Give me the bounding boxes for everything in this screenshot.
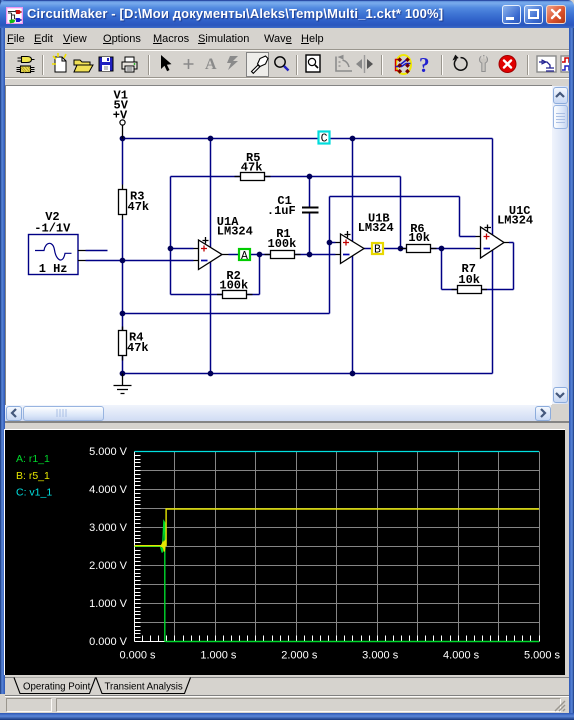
title bar xyxy=(0,0,574,28)
svg-text:B: r5_1: B: r5_1 xyxy=(16,470,50,482)
vertical scrollbar xyxy=(552,86,568,404)
resistor R2 xyxy=(217,269,253,298)
node junction R5/C1 xyxy=(307,174,313,180)
node junction A/R2/R1 xyxy=(257,252,263,258)
node junction U1A+ tap xyxy=(168,246,174,252)
node C marker xyxy=(319,132,330,146)
run icon xyxy=(453,55,467,71)
wire V2 plus stub xyxy=(86,250,108,252)
svg-text:B: B xyxy=(374,244,381,257)
svg-text:4.000 V: 4.000 V xyxy=(89,484,128,496)
wire U1A V- power drop xyxy=(210,262,212,374)
minimize button xyxy=(502,5,521,24)
svg-text:LM324: LM324 xyxy=(358,221,394,235)
resistor R7 xyxy=(452,262,488,294)
node junction rail/U1B power xyxy=(350,136,356,142)
print icon xyxy=(122,57,137,72)
node junction R6/R7 tap xyxy=(439,246,445,252)
wire bottom ground rail xyxy=(123,373,493,375)
svg-text:1.000 V: 1.000 V xyxy=(89,598,128,610)
node junction U1B out/R5 fb xyxy=(398,246,404,252)
svg-text:C: C xyxy=(321,133,328,146)
svg-text:3.000 s: 3.000 s xyxy=(362,650,399,662)
wire R6 node down to R7 xyxy=(442,249,458,290)
tab bar xyxy=(5,675,569,695)
app icon xyxy=(6,7,23,24)
svg-text:LM324: LM324 xyxy=(497,213,533,227)
svg-text:100k: 100k xyxy=(268,237,297,251)
wire to U1A noninverting input xyxy=(171,248,194,250)
page zoom icon xyxy=(306,55,320,72)
svg-text:10k: 10k xyxy=(408,231,430,245)
svg-text:5.000 V: 5.000 V xyxy=(89,446,128,458)
wire V1 to R3 xyxy=(122,139,124,185)
svg-text:1.000 s: 1.000 s xyxy=(200,650,237,662)
svg-text:-1/1V: -1/1V xyxy=(34,222,71,236)
wire U1B V- power drop xyxy=(352,256,354,374)
pause wrench icon xyxy=(480,55,488,72)
op-amp U1A xyxy=(194,215,253,270)
wire U1A V+ power drop xyxy=(210,139,212,248)
power terminal V1 +V xyxy=(113,88,129,138)
resistor R3 xyxy=(119,185,150,220)
node A marker xyxy=(239,249,250,263)
wire U1B noninverting column xyxy=(329,197,331,314)
svg-text:1 Hz: 1 Hz xyxy=(39,262,68,276)
lightning icon xyxy=(227,56,238,70)
svg-text:4.000 s: 4.000 s xyxy=(443,650,480,662)
menu bar xyxy=(5,28,569,50)
node junction ground rail left xyxy=(120,371,126,377)
plus icon xyxy=(184,59,194,69)
trace B yellow xyxy=(135,509,540,552)
node junction mid rail tap xyxy=(120,311,126,317)
svg-text:.1uF: .1uF xyxy=(267,204,296,218)
svg-text:Operating Point: Operating Point xyxy=(23,682,91,693)
wire R5/R2 left column xyxy=(170,177,172,295)
wire U1B+ to U1C+ link xyxy=(330,197,476,237)
svg-text:5.000 s: 5.000 s xyxy=(524,650,561,662)
wire C1 column xyxy=(309,177,311,255)
svg-text:47k: 47k xyxy=(127,341,149,355)
node junction U1B+ tap xyxy=(327,240,333,246)
window left border xyxy=(0,0,5,694)
mirror arrows icon xyxy=(356,55,373,73)
svg-text:2.000 V: 2.000 V xyxy=(89,560,128,572)
close button xyxy=(546,5,566,24)
svg-text:?: ? xyxy=(419,53,430,77)
wire top +V rail xyxy=(123,138,493,140)
svg-text:Transient Analysis: Transient Analysis xyxy=(105,682,183,693)
voltage source V2 xyxy=(29,210,86,276)
node junction ground rail mid xyxy=(208,371,214,377)
wire mid rail to U1B noninverting xyxy=(123,313,330,315)
trace A green xyxy=(135,522,540,642)
capacitor C1 xyxy=(267,194,319,218)
svg-text:3.000 V: 3.000 V xyxy=(89,522,128,534)
svg-text:C: v1_1: C: v1_1 xyxy=(16,487,52,499)
open folder icon xyxy=(74,60,93,72)
svg-text:A: A xyxy=(241,250,248,263)
save icon xyxy=(99,57,113,71)
parts browser icon xyxy=(17,57,35,73)
svg-text:+V: +V xyxy=(113,109,128,123)
wire U1C V+ power drop xyxy=(492,139,494,236)
node junction V1 rail xyxy=(120,136,126,142)
node junction rail/U1A power xyxy=(208,136,214,142)
wire R5 to U1B output feedback xyxy=(400,177,402,249)
wire U1A output to R1 to U1B inverting xyxy=(229,254,336,256)
node junction ground rail right xyxy=(350,371,356,377)
resistor R6 xyxy=(401,222,437,253)
wire R7 to U1C output xyxy=(482,243,514,290)
svg-text:0.000 V: 0.000 V xyxy=(89,636,128,648)
ground xyxy=(114,374,132,394)
digital options icon xyxy=(396,55,412,74)
svg-text:10k: 10k xyxy=(458,273,480,287)
wire R5 row xyxy=(171,176,401,178)
probe pressed button xyxy=(247,53,269,77)
new file icon xyxy=(52,53,66,72)
wire R3 to R4 to ground column xyxy=(122,220,124,374)
svg-text:LM324: LM324 xyxy=(217,224,253,238)
op-amp U1C xyxy=(476,204,534,258)
trace C cyan xyxy=(135,451,540,453)
horizontal scrollbar xyxy=(5,405,551,421)
wire V2 to U1A inverting input xyxy=(86,260,194,262)
resistor R1 xyxy=(265,227,301,259)
wire U1B noninverting stub xyxy=(330,242,336,244)
schematic canvas xyxy=(5,85,552,405)
wire U1C V- power drop xyxy=(492,250,494,374)
node B marker xyxy=(372,243,383,257)
zoom icon xyxy=(275,57,289,71)
op-amp U1B xyxy=(336,211,394,263)
probe setup icon xyxy=(537,56,556,72)
stop icon xyxy=(499,56,516,73)
node junction R1/C1 xyxy=(307,252,313,258)
arrow cursor icon xyxy=(161,55,172,71)
wire U1B output through R6 to U1C inverting xyxy=(364,248,476,250)
window right border xyxy=(569,26,574,720)
waveform panel xyxy=(5,423,569,430)
status bar xyxy=(5,695,569,713)
trace B yellow blob xyxy=(160,539,166,549)
window bottom border xyxy=(0,713,574,720)
node junction V2/R3 tap xyxy=(120,258,126,264)
waveforms icon xyxy=(561,56,574,72)
maximize button xyxy=(524,5,543,24)
rotate gray icon xyxy=(336,55,352,71)
svg-text:A: r1_1: A: r1_1 xyxy=(16,453,50,465)
resistor R5 xyxy=(235,151,271,181)
toolbar xyxy=(5,51,569,77)
svg-text:0.000 s: 0.000 s xyxy=(119,650,156,662)
wire R2 row xyxy=(171,255,260,295)
wire U1B V+ power drop xyxy=(352,139,354,242)
svg-text:A: A xyxy=(205,56,217,73)
resistor R4 xyxy=(119,327,149,361)
svg-text:2.000 s: 2.000 s xyxy=(281,650,318,662)
svg-text:47k: 47k xyxy=(128,200,150,214)
